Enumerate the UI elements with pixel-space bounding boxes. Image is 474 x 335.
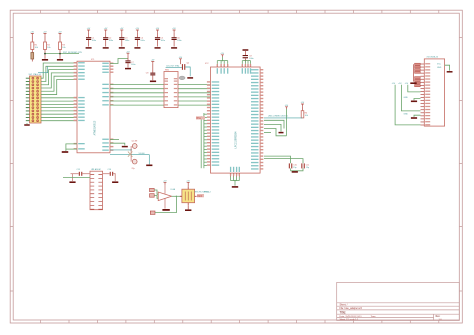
wire net from IC2 to R4 bbox=[264, 117, 303, 119]
svg-text:10k: 10k bbox=[62, 47, 65, 49]
IC1 right pin numbers and names bbox=[110, 63, 113, 64]
capacitor C6 with power and ground bbox=[173, 30, 176, 32]
ground blob bbox=[279, 132, 284, 134]
capacitor C4 with power and ground bbox=[136, 30, 139, 32]
trim element X-shape bbox=[128, 152, 132, 157]
svg-text:100n: 100n bbox=[131, 64, 135, 66]
IC2 bottom pins to ground bbox=[230, 173, 232, 176]
wire bundle SV1 to IC1 upper pins (stair fan) bbox=[41, 63, 77, 78]
IC2 right pin rows bbox=[260, 69, 263, 70]
vertical wires to X2 lower pins bbox=[395, 85, 420, 125]
capacitor C7 at IC1 top right bbox=[110, 59, 128, 64]
svg-text:100n: 100n bbox=[109, 40, 113, 42]
svg-text:X4.000: X4.000 bbox=[139, 153, 145, 155]
svg-text:USB_CONNECT-BOOTL: USB_CONNECT-BOOTL bbox=[268, 115, 288, 117]
filter FL1 yellow body bbox=[182, 189, 195, 203]
X2 pin stubs and names bbox=[421, 63, 425, 65]
X2 mid ground 2 bbox=[414, 115, 421, 117]
capacitor C8 left of RN1 bbox=[151, 62, 154, 64]
svg-text:100n: 100n bbox=[125, 40, 129, 42]
op-amp IC4A bbox=[158, 192, 171, 201]
svg-text:GND: GND bbox=[437, 67, 442, 69]
net label BSL bbox=[196, 116, 205, 119]
connector X2 box bbox=[424, 59, 444, 126]
connector SV1 left pin stubs bbox=[26, 78, 30, 121]
resistor R3 with power symbol bbox=[59, 34, 62, 36]
svg-text:15p: 15p bbox=[293, 167, 296, 169]
capacitor C3 with power and ground bbox=[120, 30, 123, 32]
X2 mid ground 1 bbox=[414, 99, 421, 101]
svg-text:22p: 22p bbox=[132, 168, 135, 170]
svg-text:100n: 100n bbox=[177, 40, 181, 42]
resistor R2 with power symbol bbox=[44, 34, 47, 36]
op IC1 microcontroller box bbox=[77, 61, 110, 153]
RN1 pin marks bbox=[165, 78, 168, 79]
svg-text:U$1 ADUM: U$1 ADUM bbox=[91, 168, 101, 171]
wire OSC to RN1 bbox=[166, 66, 182, 68]
wires around C15/C16 bbox=[71, 173, 79, 175]
ground right of IC3 bbox=[112, 181, 118, 183]
IC1 GND/VCC wires lower left with ground bbox=[66, 144, 77, 151]
oscillator body grey bbox=[179, 76, 185, 80]
svg-text:10k: 10k bbox=[305, 115, 308, 117]
wires IC2 right pins nested to ground bbox=[264, 120, 284, 128]
svg-text:RES: RES bbox=[197, 195, 202, 198]
svg-text:100n: 100n bbox=[140, 40, 144, 42]
svg-text:X2 DSUB-25: X2 DSUB-25 bbox=[427, 57, 439, 59]
wire net RESET from R2/R3 to IC1 bbox=[45, 53, 79, 55]
svg-text:Title:: Title: bbox=[340, 310, 347, 314]
op IC2 main processor box bbox=[211, 67, 261, 173]
IC3 internal pin marks bbox=[90, 174, 102, 176]
jumper pad J1 bbox=[150, 188, 155, 191]
IC1 left pin numbers bbox=[74, 62, 77, 63]
ground below C10/C11 bbox=[290, 168, 292, 170]
RN2/RN3 left rail to ground bbox=[413, 64, 415, 81]
feedback wire from J3 bbox=[155, 196, 176, 212]
svg-text:VCC: VCC bbox=[437, 64, 442, 66]
IC2 top pin names vertical bbox=[217, 68, 218, 74]
frame row tick marks left/right bbox=[10, 38, 462, 292]
svg-text:Time:: Time: bbox=[371, 316, 377, 318]
IC1 left pin names bbox=[78, 62, 85, 63]
connector SV1 pin contacts bbox=[32, 77, 34, 79]
power symbol above vertical net bbox=[285, 107, 288, 109]
svg-text:GND: GND bbox=[404, 114, 409, 116]
wires J1/J2 to op-amp bbox=[154, 190, 158, 194]
svg-text:Date: 11/11/2011 11:11: Date: 11/11/2011 11:11 bbox=[340, 315, 363, 318]
svg-text:100n: 100n bbox=[92, 40, 96, 42]
wire XTAL2 bbox=[110, 154, 149, 156]
jumper pad J2 bbox=[150, 194, 155, 198]
crystal link wires bbox=[130, 146, 132, 162]
capacitor C5 with power and ground bbox=[156, 30, 159, 32]
svg-text:ATMEGA8515: ATMEGA8515 bbox=[94, 120, 97, 135]
IC2 top right pins with capacitor C9 to gnd bbox=[241, 64, 243, 67]
svg-text:10k: 10k bbox=[47, 47, 50, 49]
wire XTAL1 bbox=[110, 149, 131, 151]
IC2 left pin rows bbox=[207, 81, 210, 82]
svg-text:CLK-OUT XTAL: CLK-OUT XTAL bbox=[166, 64, 179, 67]
resistor R4 pullup bbox=[301, 104, 304, 106]
ground top of crystal area bbox=[122, 146, 128, 148]
svg-text:RST_IN RESET-CPU: RST_IN RESET-CPU bbox=[63, 52, 83, 54]
svg-text:Q1 4M: Q1 4M bbox=[132, 141, 138, 143]
crystal Q1 lower element bbox=[132, 159, 137, 164]
svg-text:C16: C16 bbox=[108, 169, 111, 171]
op-amp output net bbox=[172, 195, 182, 197]
jumper pad J3 bbox=[150, 211, 155, 214]
green wire into IC3 bbox=[63, 177, 90, 179]
IC2 left lower bus wires bbox=[203, 113, 205, 168]
connector SV1 pin header body bbox=[30, 76, 42, 123]
svg-text:RST-FILT(TRST): RST-FILT(TRST) bbox=[195, 191, 210, 193]
IC1 right lower wires to crystal bbox=[110, 139, 119, 141]
filter ground bbox=[185, 209, 191, 211]
crystal Q1 upper element bbox=[132, 144, 137, 149]
ground below SV1 bbox=[26, 123, 28, 124]
resistor network RN1 box bbox=[164, 72, 178, 108]
op IC3 socket box bbox=[90, 171, 103, 210]
ground left of IC3 bbox=[72, 174, 74, 181]
op-amp power bbox=[164, 182, 167, 184]
svg-text:C15: C15 bbox=[77, 169, 80, 171]
capacitor C11 bbox=[264, 159, 303, 164]
capacitor C2 with power and ground bbox=[104, 30, 107, 32]
svg-text:GND: GND bbox=[404, 97, 409, 99]
capacitor C10 bbox=[264, 156, 291, 163]
svg-text:IC4A: IC4A bbox=[171, 188, 176, 191]
frame column tick marks top/bottom bbox=[41, 10, 439, 323]
svg-text:SV1 JTAG-14: SV1 JTAG-14 bbox=[29, 73, 42, 76]
teal labelled net into bundle bbox=[38, 72, 48, 74]
wire bus IC1 to RN1 to IC2 bbox=[110, 84, 164, 86]
wire crystal to ground bbox=[185, 67, 190, 76]
crystal Q2 top with power bbox=[179, 59, 182, 61]
capacitor C1 with power and ground bbox=[87, 30, 90, 32]
svg-text:LPC2138FBD64: LPC2138FBD64 bbox=[236, 131, 238, 148]
svg-text:100n: 100n bbox=[161, 40, 165, 42]
capacitor C16 bbox=[110, 172, 111, 176]
title block frame bbox=[337, 282, 460, 320]
capacitor C15 bbox=[79, 172, 80, 176]
svg-text:Sheet: /: Sheet: / bbox=[340, 303, 348, 306]
crystal Q2 plates bbox=[182, 64, 183, 70]
svg-text:10k: 10k bbox=[35, 47, 38, 49]
fuse F1 below R1 bbox=[31, 50, 33, 53]
wire bundle SV1 to IC1 straight bbox=[41, 97, 77, 99]
series resistor pack RN2 bbox=[415, 63, 421, 65]
net label RESET hatched bbox=[197, 194, 204, 197]
resistor R1 with power symbol bbox=[31, 34, 34, 36]
series resistor pack RN3 bbox=[415, 77, 421, 79]
IC2 top pin numbers bbox=[217, 64, 218, 66]
filter power bbox=[187, 182, 190, 184]
ground below R3 bbox=[57, 59, 63, 61]
op-amp ground bbox=[164, 199, 166, 209]
svg-text:100n: 100n bbox=[249, 58, 253, 60]
svg-text:Sheet 1/1 scale 1:1: Sheet 1/1 scale 1:1 bbox=[340, 318, 360, 321]
svg-text:BSL: BSL bbox=[197, 117, 202, 120]
inverted ground above C9 bbox=[243, 49, 249, 51]
ground below R2 bbox=[42, 59, 48, 61]
svg-text:Rev:: Rev: bbox=[436, 316, 441, 318]
svg-text:15p: 15p bbox=[306, 167, 309, 169]
IC2 top left power pins bbox=[216, 64, 218, 67]
